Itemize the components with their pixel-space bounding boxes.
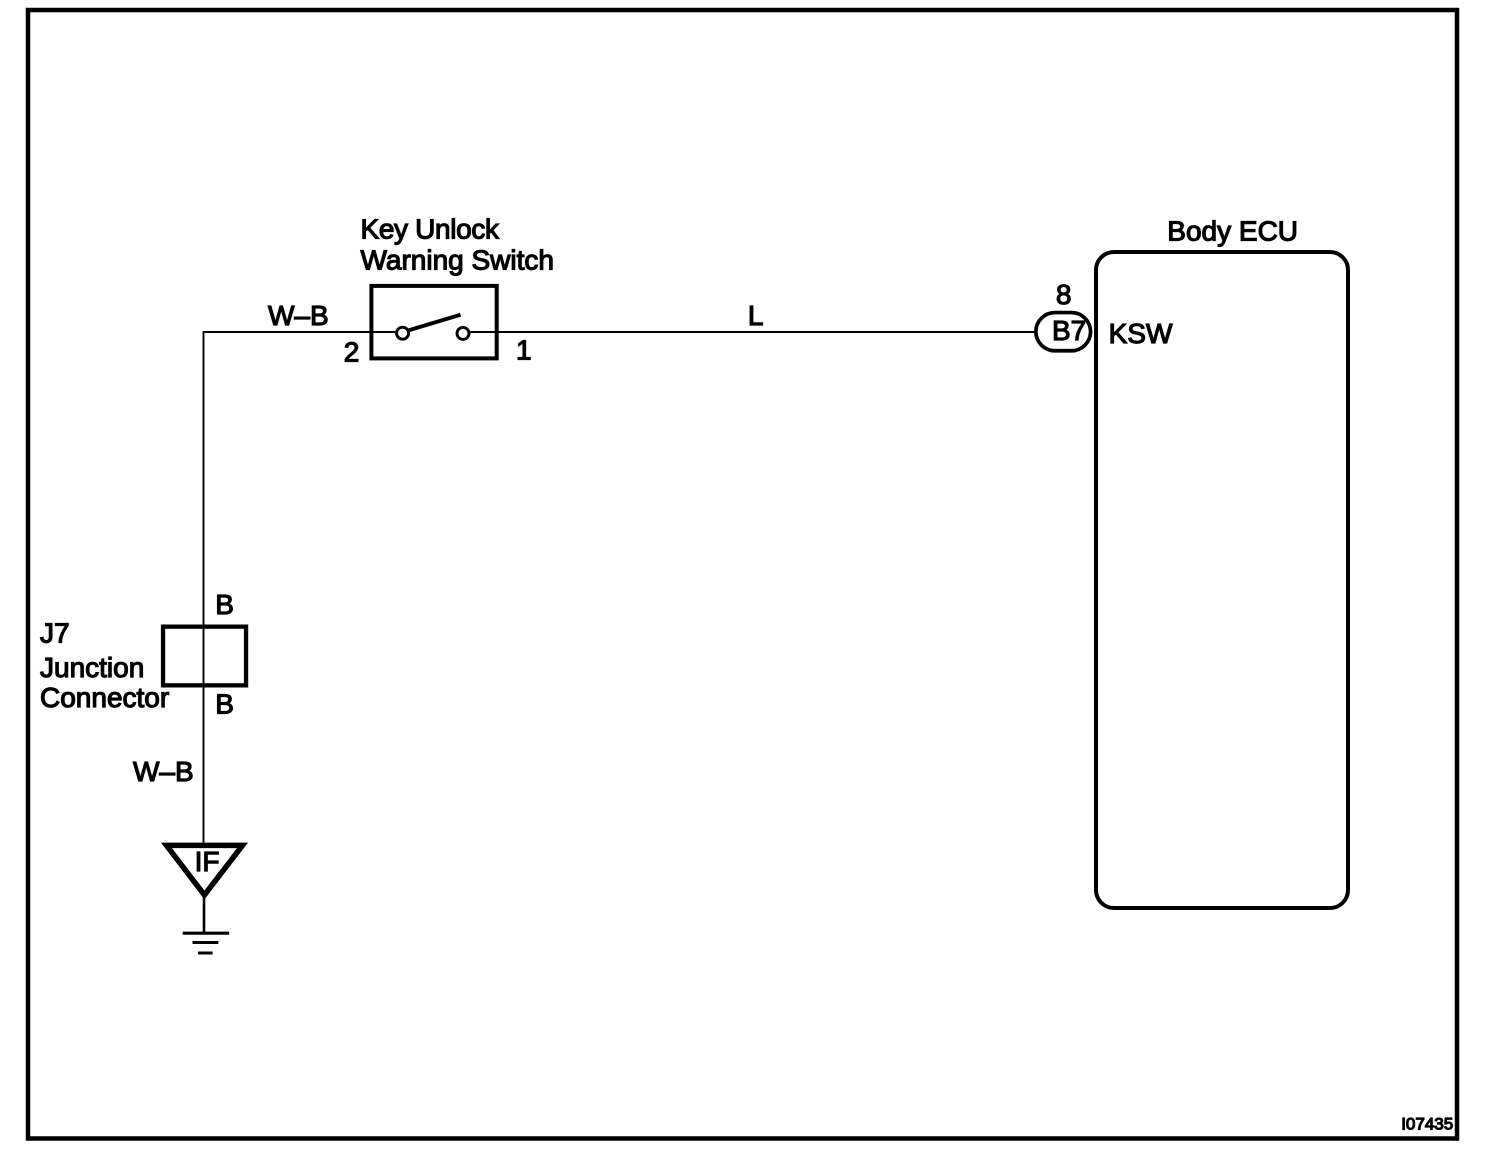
svg-text:Connector: Connector xyxy=(40,682,169,713)
svg-text:1: 1 xyxy=(516,335,532,366)
svg-text:W–B: W–B xyxy=(133,756,194,787)
svg-text:B7: B7 xyxy=(1052,315,1086,346)
svg-text:KSW: KSW xyxy=(1109,318,1173,349)
svg-text:B: B xyxy=(215,589,234,620)
svg-text:2: 2 xyxy=(344,337,360,368)
svg-text:Warning Switch: Warning Switch xyxy=(361,244,554,275)
svg-text:W–B: W–B xyxy=(268,300,329,331)
svg-text:B: B xyxy=(215,689,234,720)
svg-text:J7: J7 xyxy=(40,618,70,649)
svg-text:I07435: I07435 xyxy=(1401,1115,1453,1134)
svg-text:Junction: Junction xyxy=(40,652,144,683)
svg-text:Body ECU: Body ECU xyxy=(1167,216,1298,247)
svg-text:L: L xyxy=(748,300,764,331)
svg-text:Key Unlock: Key Unlock xyxy=(361,214,500,245)
svg-text:IF: IF xyxy=(195,846,220,877)
svg-text:8: 8 xyxy=(1056,279,1072,310)
